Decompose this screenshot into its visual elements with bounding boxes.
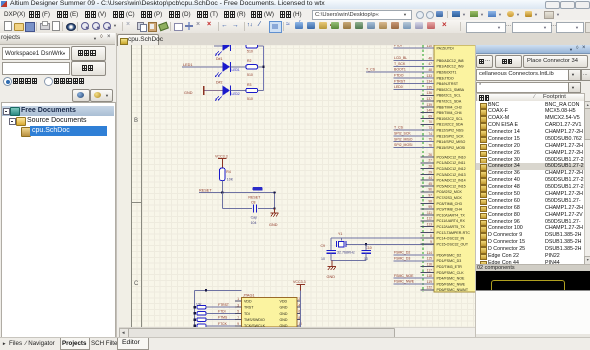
pin PB9 (140): [421, 112, 435, 114]
pin PB12 (73): [394, 129, 435, 131]
wire C8 to GND branch: [258, 208, 274, 210]
svg-text:PB2/BOOT1: PB2/BOOT1: [437, 71, 457, 75]
workspace combo: [2, 47, 70, 60]
JTAG pin 3: [235, 306, 242, 308]
svg-text:10K: 10K: [227, 177, 234, 181]
svg-text:GND: GND: [327, 275, 336, 279]
resistor R6 (10K pull): [197, 312, 206, 316]
svg-text:32.768KHz: 32.768KHz: [337, 250, 355, 254]
svg-text:PD4/FSMC_NOE: PD4/FSMC_NOE: [437, 277, 466, 281]
pin PD6 (122): [421, 289, 435, 291]
svg-text:PD3/FSMC_CLK: PD3/FSMC_CLK: [437, 271, 465, 275]
pin PB8 (139): [421, 106, 435, 108]
lib row Connector 100: [476, 225, 584, 232]
svg-text:TRST: TRST: [244, 306, 254, 310]
pin PC10 (111): [421, 214, 435, 216]
wire to C8: [222, 208, 252, 210]
capacitor C9: [327, 249, 336, 251]
resistor R3: [246, 88, 258, 92]
lib row D Connector 25: [476, 246, 584, 253]
pin PB14 (75): [394, 141, 435, 143]
pin PB10 (69): [421, 118, 435, 120]
wire vertical RESET to GND: [274, 193, 276, 209]
svg-text:PC2/ADC12_IN12: PC2/ADC12_IN12: [437, 167, 466, 171]
wire vertical to C8 branch: [221, 193, 223, 209]
pin PD2 (116): [421, 266, 435, 268]
svg-text:111: 111: [427, 211, 432, 215]
svg-text:10: 10: [321, 257, 325, 261]
svg-text:PC10/UART4_TX: PC10/UART4_TX: [437, 213, 466, 217]
footprint preview: [476, 271, 590, 290]
pin PB2 (48): [394, 71, 435, 73]
resistor R5 (10K pull): [197, 305, 206, 309]
pin PB13 (74): [394, 135, 435, 137]
svg-text:110: 110: [427, 45, 432, 48]
wire PC15-OSC32_OUT: [347, 243, 435, 245]
project combo: [2, 62, 70, 75]
Free Documents row: [2, 106, 114, 116]
svg-text:Y1: Y1: [338, 232, 342, 236]
pin PC14 (8): [421, 237, 435, 239]
editor viewport: [119, 45, 475, 327]
svg-text:137: 137: [426, 97, 432, 101]
JTAG pin 10: [297, 325, 301, 327]
svg-text:46: 46: [428, 56, 432, 60]
lib row Connector 36: [476, 170, 584, 177]
two tool buttons: [72, 89, 90, 102]
LED D#0: [223, 41, 231, 51]
crystal lead: [340, 238, 342, 240]
wire JTAG top: [195, 289, 242, 291]
svg-text:75: 75: [428, 138, 432, 142]
svg-text:PC5/ADC12_IN15: PC5/ADC12_IN15: [437, 184, 466, 188]
svg-text:PB6/I2C1_SCL: PB6/I2C1_SCL: [437, 94, 461, 98]
svg-text:510: 510: [247, 50, 253, 54]
wire into D#0: [214, 45, 223, 47]
svg-text:GND: GND: [280, 318, 288, 322]
wire row0 to bus: [256, 45, 264, 47]
svg-text:1: 1: [237, 297, 239, 301]
svg-text:PC15-OSC32_OUT: PC15-OSC32_OUT: [437, 242, 469, 246]
svg-text:9: 9: [430, 240, 432, 244]
svg-text:122: 122: [426, 286, 432, 290]
svg-text:PC3/ADC12_IN13: PC3/ADC12_IN13: [437, 173, 466, 177]
svg-text:FTRST: FTRST: [218, 303, 229, 307]
U1 body: [434, 45, 478, 292]
svg-text:134: 134: [426, 80, 432, 84]
svg-text:PB4/NJTRST: PB4/NJTRST: [437, 82, 459, 86]
wire JTAG right vertical: [300, 290, 302, 327]
schematic svg placeholder: [119, 45, 475, 327]
svg-text:98: 98: [428, 199, 432, 203]
JTAG1 body: [242, 298, 298, 328]
svg-text:5: 5: [237, 310, 239, 314]
power stem: [300, 285, 302, 291]
menu bar: [0, 9, 590, 21]
libraries panel: [475, 45, 590, 337]
svg-text:TMS/SWDIO: TMS/SWDIO: [244, 318, 265, 322]
pin PB15 (76): [394, 147, 435, 149]
junction: [273, 208, 275, 210]
svg-text:VCC3.3: VCC3.3: [215, 154, 228, 158]
gnd stem: [274, 209, 276, 213]
radios: [3, 77, 12, 86]
tree: [1, 102, 116, 338]
junction: [221, 191, 223, 193]
wire PC14-OSC32_IN: [331, 237, 434, 239]
JTAG pin 6: [297, 312, 301, 314]
svg-text:LED2: LED2: [232, 92, 240, 96]
svg-text:SPI2_MOSI: SPI2_MOSI: [394, 143, 413, 147]
lib row Edge Con 22: [476, 253, 584, 260]
svg-text:FTRST: FTRST: [394, 79, 406, 83]
wire D#2 to R3: [231, 90, 246, 92]
lib row Connector 96: [476, 219, 584, 226]
lib row Connector 68: [476, 205, 584, 212]
svg-text:PC0/ADC12_IN10: PC0/ADC12_IN10: [437, 155, 466, 159]
resistor R7 (10K pull): [197, 318, 206, 322]
lib row Connector 40: [476, 177, 584, 184]
wire vertical bus: [263, 46, 265, 91]
lib row CON EISA E: [476, 122, 584, 129]
C9 bottom lead: [330, 253, 332, 260]
pin PC0 (26): [421, 156, 435, 158]
svg-text:FTMS: FTMS: [218, 316, 228, 320]
svg-text:PC13-TAMPER-RTC: PC13-TAMPER-RTC: [437, 231, 471, 235]
lib row D Connector 9: [476, 232, 584, 239]
svg-text:PC9/TIM8_CH4: PC9/TIM8_CH4: [437, 208, 462, 212]
svg-text:PB8/TIM4_CH3: PB8/TIM4_CH3: [437, 105, 462, 109]
svg-text:FTDI: FTDI: [218, 309, 226, 313]
svg-text:PB15/SPI2_MOSI: PB15/SPI2_MOSI: [437, 146, 466, 150]
C10 top lead: [365, 244, 367, 250]
LED D#2 emission arrows: [216, 96, 219, 100]
ground: [270, 212, 278, 214]
svg-text:D#2: D#2: [216, 81, 222, 85]
svg-text:99: 99: [428, 205, 432, 209]
svg-text:SPI2_MISO: SPI2_MISO: [394, 137, 413, 141]
svg-text:VDD: VDD: [244, 299, 252, 303]
svg-text:118: 118: [427, 274, 432, 278]
pin PC1 (27): [421, 162, 435, 164]
svg-text:PD5/FSMC_NWE: PD5/FSMC_NWE: [437, 282, 466, 286]
svg-text:44: 44: [428, 176, 432, 180]
resistor R8 (10K pull): [197, 324, 206, 328]
pin PD5 (119): [394, 283, 435, 285]
resistor R4 (vertical): [220, 168, 225, 181]
wire R3 to bus corner: [258, 90, 264, 92]
status bar: [0, 337, 590, 350]
pin PB11 (70): [421, 123, 435, 125]
svg-text:115: 115: [427, 257, 432, 261]
svg-text:113: 113: [427, 223, 432, 227]
svg-text:28: 28: [428, 165, 432, 169]
pin PB4 (134): [394, 83, 435, 85]
LED D#2: [223, 86, 231, 96]
svg-text:3: 3: [237, 303, 239, 307]
lib row Connector 20: [476, 143, 584, 150]
svg-text:70: 70: [428, 120, 432, 124]
lib row Connector 26: [476, 150, 584, 157]
JTAG pin 8: [297, 319, 301, 321]
svg-text:136: 136: [426, 91, 432, 95]
lib row Connector 34: [476, 163, 584, 170]
svg-text:T_CS: T_CS: [366, 68, 376, 72]
svg-text:9: 9: [237, 322, 239, 326]
svg-text:R2: R2: [247, 59, 252, 63]
lib row Connector 80: [476, 212, 584, 219]
pin PD4 (118): [394, 277, 435, 279]
svg-text:FTDI: FTDI: [394, 45, 402, 48]
microcontroller U1 (STM32): [422, 45, 424, 292]
ground: [328, 265, 336, 267]
junction: [365, 243, 367, 245]
svg-text:RESET: RESET: [248, 195, 261, 199]
svg-text:PB13/SPI2_SCK: PB13/SPI2_SCK: [437, 134, 465, 138]
svg-text:GND: GND: [280, 306, 288, 310]
wire JTAG left vertical: [194, 290, 196, 327]
JTAG pin 9: [235, 325, 242, 327]
lib row Connector 14: [476, 129, 584, 136]
power stem: [221, 159, 223, 168]
pin PB0 (46): [394, 60, 435, 62]
svg-text:PB0/ADC12_IN8: PB0/ADC12_IN8: [437, 59, 464, 63]
crystal Y1: [339, 241, 344, 247]
svg-text:27: 27: [428, 159, 432, 163]
svg-text:47: 47: [428, 62, 432, 66]
svg-text:LED0: LED0: [394, 85, 403, 89]
pin PC7 (97): [421, 197, 435, 199]
svg-text:PB14/SPI2_MISO: PB14/SPI2_MISO: [437, 140, 466, 144]
C10 bottom lead: [365, 253, 367, 260]
pin PC9 (99): [421, 208, 435, 210]
svg-text:114: 114: [427, 251, 432, 255]
lib row Connector 50: [476, 191, 584, 198]
svg-text:FSMC_NWE: FSMC_NWE: [394, 280, 415, 284]
title bar: [0, 0, 590, 10]
svg-text:7: 7: [430, 228, 432, 232]
svg-text:45: 45: [428, 182, 432, 186]
svg-text:VDD: VDD: [280, 299, 288, 303]
path combo: [312, 10, 412, 20]
pin PC6 (96): [421, 191, 435, 193]
svg-text:PC12/UART5_TX: PC12/UART5_TX: [437, 225, 466, 229]
svg-text:112: 112: [427, 217, 432, 221]
lib row Connector 30: [476, 157, 584, 164]
lib row Connector 48: [476, 184, 584, 191]
svg-text:PD1/FSMC_D3: PD1/FSMC_D3: [437, 259, 462, 263]
svg-text:97: 97: [428, 194, 432, 198]
wire D#1 to R2: [231, 66, 246, 68]
svg-text:FTCK: FTCK: [218, 322, 228, 326]
svg-text:C8: C8: [251, 200, 256, 204]
svg-text:PC7/I2S3_MCK: PC7/I2S3_MCK: [437, 196, 463, 200]
wire GND bar to D#2: [205, 90, 223, 92]
svg-text:PC11/UART4_RX: PC11/UART4_RX: [437, 219, 466, 223]
svg-text:LED1: LED1: [232, 68, 240, 72]
svg-text:PB3/JTDO: PB3/JTDO: [437, 76, 454, 80]
svg-text:73: 73: [428, 126, 432, 130]
svg-text:74: 74: [428, 132, 432, 136]
svg-text:C9: C9: [321, 244, 326, 248]
svg-text:GND: GND: [269, 223, 278, 227]
lib row Connector 60: [476, 198, 584, 205]
svg-text:8: 8: [430, 234, 432, 238]
pin PB3 (133): [394, 77, 435, 79]
svg-text:PB7/I2C1_SDA: PB7/I2C1_SDA: [437, 100, 462, 104]
pin PD3 (117): [421, 271, 435, 273]
sheet margin: [119, 45, 131, 327]
lib row BNC: [476, 102, 584, 109]
junction: [273, 191, 275, 193]
status 102 components: [476, 264, 590, 272]
pin PB5 (135): [394, 89, 435, 91]
LED D#0 emission arrows: [216, 51, 219, 55]
svg-text:FTDO: FTDO: [394, 74, 404, 78]
capacitor C10: [362, 249, 371, 251]
pin PC15 (9): [421, 243, 435, 245]
C9 top lead: [330, 238, 332, 250]
pin PA15 (110): [394, 47, 435, 49]
JTAG pin 5: [235, 312, 242, 314]
capacitor C8: [252, 205, 254, 213]
svg-text:69: 69: [428, 114, 432, 118]
svg-text:PB5/I2C1_SMBA: PB5/I2C1_SMBA: [437, 88, 465, 92]
svg-text:D#1: D#1: [216, 57, 222, 61]
JTAG pin 7: [235, 319, 242, 321]
svg-text:PB1/ADC12_IN9: PB1/ADC12_IN9: [437, 65, 464, 69]
svg-text:10K: 10K: [196, 303, 203, 307]
left panel: [0, 33, 117, 337]
svg-text:FSMC_D2: FSMC_D2: [394, 251, 410, 255]
resistor R2: [246, 65, 258, 69]
pin PC11 (112): [421, 220, 435, 222]
pin PC4 (44): [421, 179, 435, 181]
JTAG pin 4: [297, 306, 301, 308]
junction: [205, 289, 207, 291]
svg-text:TDI: TDI: [244, 312, 250, 316]
tab strip over editor: [116, 33, 590, 46]
lib row COAX-F: [476, 108, 584, 115]
svg-text:135: 135: [426, 85, 432, 89]
svg-text:510: 510: [247, 97, 253, 101]
svg-text:PD0/FSMC_D2: PD0/FSMC_D2: [437, 253, 462, 257]
svg-text:PB11/I2C2_SDA: PB11/I2C2_SDA: [437, 123, 464, 127]
wire R2 to bus: [258, 66, 264, 68]
panel header: [0, 33, 115, 45]
svg-text:PA15/JTDI: PA15/JTDI: [437, 46, 454, 50]
selected blue marker blob: [253, 187, 263, 191]
pin PC2 (28): [421, 168, 435, 170]
svg-text:GND: GND: [280, 312, 288, 316]
svg-text:29: 29: [428, 170, 432, 174]
svg-text:PC1/ADC12_IN11: PC1/ADC12_IN11: [437, 161, 466, 165]
svg-text:PC8/TIM8_CH3: PC8/TIM8_CH3: [437, 202, 462, 206]
pin PC5 (45): [421, 185, 435, 187]
svg-text:PD2/TIM3_ETR: PD2/TIM3_ETR: [437, 265, 463, 269]
lib row D Connector 15: [476, 239, 584, 246]
svg-text:140: 140: [426, 109, 432, 113]
junction: [262, 66, 264, 68]
svg-text:26: 26: [428, 153, 432, 157]
svg-text:139: 139: [426, 103, 432, 107]
svg-text:PB10/I2C2_SCL: PB10/I2C2_SCL: [437, 117, 463, 121]
pin PD1 (115): [394, 260, 435, 262]
lib row COAX-M: [476, 115, 584, 122]
svg-text:48: 48: [428, 68, 432, 72]
svg-text:T_CS: T_CS: [394, 126, 404, 130]
LED D#1: [223, 62, 231, 72]
svg-text:116: 116: [427, 263, 432, 267]
pin PB7 (137): [421, 100, 435, 102]
svg-text:FSMC_NOE: FSMC_NOE: [394, 274, 414, 278]
svg-text:Cap: Cap: [251, 216, 257, 220]
main toolbar: [0, 20, 590, 34]
wire LED1 to D#1: [182, 66, 223, 68]
svg-text:119: 119: [427, 280, 432, 284]
svg-text:PD6/FSMC_NWAIT: PD6/FSMC_NWAIT: [437, 288, 469, 292]
pin PD0 (114): [394, 254, 435, 256]
pin PC3 (29): [421, 173, 435, 175]
JTAG pin 1: [235, 300, 242, 302]
wire RESET horizontal: [199, 192, 276, 194]
svg-text:PC6/I2S2_MCK: PC6/I2S2_MCK: [437, 190, 463, 194]
cpu.SchDoc row: [2, 126, 114, 136]
svg-text:117: 117: [427, 268, 432, 272]
lib row Edge Con 44: [476, 260, 584, 267]
svg-text:GND: GND: [184, 91, 193, 95]
pin PB6 (136): [421, 94, 435, 96]
svg-text:VCC3.3: VCC3.3: [293, 280, 306, 284]
lib row Connector 15: [476, 136, 584, 143]
svg-text:BOOT1: BOOT1: [394, 68, 406, 72]
pin PC8 (98): [421, 202, 435, 204]
svg-text:LCD_BL: LCD_BL: [394, 56, 407, 60]
horizontal scrollbar: [119, 327, 475, 338]
pin PB1 (47): [394, 65, 435, 67]
LED D#1 emission arrows: [216, 73, 219, 77]
svg-text:104: 104: [251, 221, 257, 225]
pin PC13 (7): [421, 231, 435, 233]
svg-text:133: 133: [426, 74, 432, 78]
svg-text:R3: R3: [247, 83, 252, 87]
Source Documents row: [2, 116, 114, 126]
svg-text:PB9/TIM4_CH4: PB9/TIM4_CH4: [437, 111, 462, 115]
svg-text:PC4/ADC12_IN14: PC4/ADC12_IN14: [437, 179, 466, 183]
svg-text:7: 7: [237, 316, 239, 320]
svg-text:R4: R4: [226, 170, 231, 174]
wire R4 to RESET node: [221, 181, 223, 193]
resistor R1: [246, 44, 258, 48]
pin PC12 (113): [421, 226, 435, 228]
gnd stem: [331, 261, 333, 267]
svg-text:PB12/SPI2_NSS: PB12/SPI2_NSS: [437, 129, 465, 133]
svg-text:PC14-OSC32_IN: PC14-OSC32_IN: [437, 237, 465, 241]
svg-text:96: 96: [428, 188, 432, 192]
svg-text:510: 510: [247, 73, 253, 77]
svg-text:T_SCK: T_SCK: [394, 62, 406, 66]
JTAG pin 2: [297, 300, 301, 302]
svg-text:FSMC_D3: FSMC_D3: [394, 256, 410, 260]
svg-text:76: 76: [428, 143, 432, 147]
svg-text:SPI2_SCK: SPI2_SCK: [394, 132, 411, 136]
wire crystal caps common: [331, 260, 366, 262]
